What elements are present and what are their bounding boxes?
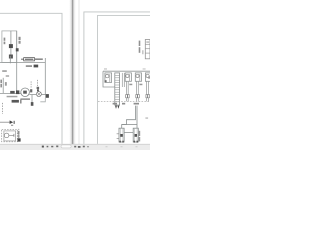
dashed lead above lamp bbox=[37, 80, 39, 87]
left page border frame bbox=[0, 13, 62, 144]
dashed lead above motor bbox=[30, 81, 32, 88]
page divider shadow between page 1 and page 2 bbox=[69, 0, 76, 144]
pump G23 feet bbox=[134, 141, 136, 143]
power bus wire y71 bbox=[103, 70, 150, 72]
connector arrows under strip bbox=[115, 106, 117, 109]
dashed component enclosure box bbox=[2, 129, 18, 142]
vacuum pump component top right bbox=[145, 40, 150, 59]
right page left edge bbox=[78, 0, 80, 144]
faint separator dot bbox=[121, 146, 123, 147]
rotated designator text bbox=[18, 131, 20, 134]
harness bundle wires to pumps bbox=[122, 106, 136, 129]
rotated label text inside box bbox=[4, 38, 6, 41]
rotated text labels at left margin bbox=[0, 80, 2, 84]
toolbar icon bbox=[78, 146, 81, 148]
connector at motor terminal bbox=[16, 90, 19, 94]
M mark inside motor bbox=[23, 91, 27, 94]
tiny text top right margin bbox=[148, 76, 150, 78]
inline connector pair bbox=[146, 95, 148, 98]
dark station label bbox=[12, 100, 19, 103]
status bar background bbox=[0, 145, 150, 150]
right page outer border frame bbox=[84, 12, 150, 144]
rotated label text left of pump bbox=[139, 41, 141, 46]
faint terminal number above bus bbox=[104, 68, 107, 69]
status bar top border bbox=[0, 143, 150, 145]
wire bbox=[10, 48, 12, 54]
dark terminal blob bbox=[18, 138, 21, 141]
wire lamp down to connector bbox=[31, 95, 33, 102]
connector at wire end bbox=[46, 94, 49, 98]
inline connector pair bbox=[126, 95, 128, 98]
bundle cross link bbox=[122, 124, 137, 126]
connector K2 bbox=[9, 55, 13, 59]
arrow head bbox=[10, 120, 14, 124]
arrow tick bbox=[14, 121, 15, 124]
toolbar icon bbox=[47, 146, 49, 148]
wire pair under S3 bbox=[136, 81, 138, 94]
inline connector pair bbox=[136, 95, 138, 98]
wire motor to lamp bbox=[29, 94, 36, 96]
pin number text under S3 bbox=[139, 84, 142, 86]
net label A6 bbox=[113, 103, 117, 105]
fuel pump motor V54 circle bbox=[21, 88, 30, 97]
relay contact K1 bbox=[9, 44, 13, 48]
toolbar icon bbox=[51, 146, 53, 148]
sender circle bbox=[4, 133, 9, 138]
lamp connector lower bbox=[37, 89, 39, 91]
pump G6 feet bbox=[119, 141, 121, 143]
pump G6 side ticks bbox=[117, 133, 119, 135]
wire lamp to fuse bbox=[41, 93, 45, 95]
wire to bottom bus bbox=[9, 56, 11, 63]
toolbar icon bbox=[56, 146, 58, 148]
pump G23 center contact bbox=[135, 134, 138, 137]
toolbar icon bbox=[83, 146, 85, 148]
ground wire left bbox=[2, 78, 4, 94]
fuse box S3 bbox=[135, 73, 141, 81]
drop wire from bus bbox=[44, 58, 46, 94]
horizontal bus wire bbox=[0, 61, 45, 63]
text under motor bbox=[20, 98, 30, 100]
wire inside box bbox=[10, 31, 12, 44]
main horizontal wire to pump motor bbox=[0, 92, 22, 94]
pump G6 center contact bbox=[120, 134, 123, 137]
sender lever wire bbox=[9, 134, 14, 136]
inner sender unit rect bbox=[4, 131, 16, 141]
lever tick bbox=[13, 134, 15, 137]
wire gauge text under bus bbox=[26, 65, 32, 67]
stub wire bbox=[142, 50, 144, 54]
label text right of box bbox=[35, 58, 43, 60]
wire pair under S2 bbox=[125, 81, 127, 94]
page number input pill bbox=[61, 145, 71, 148]
fuel pump G23 right bbox=[133, 128, 138, 142]
faint separator dot bbox=[106, 146, 108, 147]
control unit box J17 bbox=[2, 31, 17, 63]
connector blob on that wire bbox=[16, 48, 19, 51]
motor right terminal marks bbox=[30, 89, 32, 92]
terminal mark bbox=[105, 80, 107, 82]
fuel pump G6 left bbox=[119, 128, 124, 142]
circle inside S4 bbox=[146, 74, 149, 77]
fuse holder box S1 bbox=[105, 73, 112, 83]
pin number text under S2 bbox=[129, 84, 132, 86]
net label A6 B bbox=[134, 103, 139, 105]
lamp connector bbox=[37, 87, 40, 89]
dashed section divider line bbox=[98, 101, 150, 103]
rotated wire label right of box bbox=[19, 37, 21, 40]
dashed lead right of enclosure bbox=[18, 129, 20, 142]
stub tick at right margin bbox=[145, 117, 148, 120]
tick mark bbox=[6, 75, 9, 76]
second bundle wire bbox=[136, 106, 138, 129]
toolbar icon bbox=[74, 146, 76, 148]
small tick label bbox=[21, 59, 24, 60]
net label 02 bbox=[122, 103, 125, 105]
circle inside S2 bbox=[126, 74, 129, 77]
small text lower left bbox=[2, 70, 7, 72]
circle inside S1 bbox=[106, 74, 109, 77]
inline connector T2 bbox=[10, 91, 15, 94]
bus drop wire bbox=[103, 71, 115, 87]
dark code label bbox=[34, 65, 39, 68]
wire inside S1 bbox=[109, 74, 111, 82]
toolbar icon faint bbox=[87, 146, 89, 147]
ground arrow wire bbox=[0, 121, 10, 123]
tick above pump bbox=[146, 41, 149, 44]
wire pair from bus bbox=[121, 73, 123, 87]
right page inner border frame bbox=[98, 15, 151, 144]
toolbar icon: previous page bbox=[42, 146, 44, 148]
part number label box N10 bbox=[24, 58, 35, 61]
wire elbow lower bbox=[40, 98, 45, 102]
terminal 31 text under arrow bbox=[11, 125, 13, 126]
rotated label right of pump G23 bbox=[139, 131, 141, 136]
wire pair under S4 bbox=[146, 81, 148, 94]
multi-pin connector strip T10 (tall ladder) bbox=[115, 73, 120, 105]
tick right of label bbox=[20, 100, 21, 104]
dashed enclosure lead bbox=[2, 103, 4, 114]
circle inside S3 bbox=[136, 74, 139, 77]
warning lamp circle with X bbox=[36, 92, 41, 97]
link wire between pumps bbox=[124, 132, 133, 134]
fuse box S2 bbox=[125, 73, 131, 81]
connector blob bbox=[31, 102, 34, 106]
fuse box S4 at edge bbox=[145, 73, 151, 81]
faint separator dot bbox=[136, 146, 138, 147]
wire on box right edge down bbox=[16, 31, 18, 93]
faint terminal number above bus right bbox=[143, 68, 146, 69]
